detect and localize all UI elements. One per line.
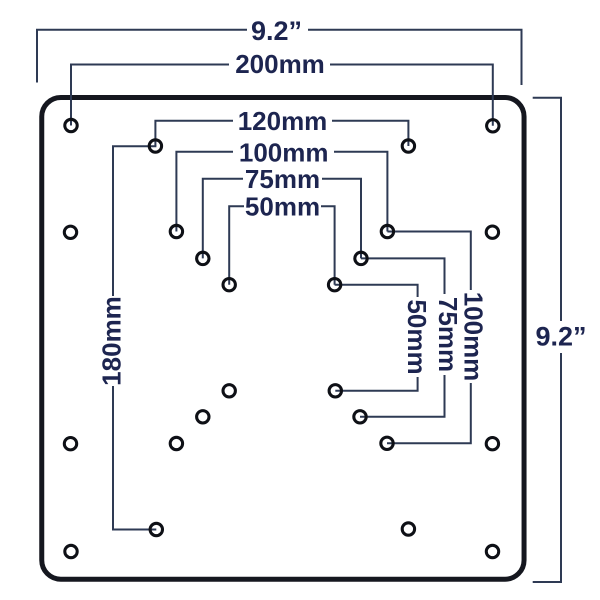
svg-text:200mm: 200mm: [235, 49, 325, 79]
dimension 180mm line bottom: [113, 386, 156, 530]
dimension 75mm right line bottom: [360, 375, 445, 417]
dimension 9.2in top line left: [37, 30, 247, 83]
hole 180mm bottom-right: [402, 523, 414, 535]
hole 50mm bottom-left: [223, 385, 235, 397]
hole 180mm bottom-left: [150, 523, 162, 535]
hole 75mm bottom-left: [197, 411, 209, 423]
dimension 100mm top line right: [334, 152, 387, 232]
svg-text:180mm: 180mm: [97, 296, 127, 386]
hole top-right outer (200mm): [487, 120, 499, 132]
svg-text:100mm: 100mm: [239, 138, 329, 168]
dimension 200mm line right: [330, 65, 493, 126]
dimension 100mm right line top: [387, 232, 470, 291]
hole 100mm bottom-left: [170, 437, 182, 449]
dimension 9.2in right line top: [533, 98, 561, 321]
dimension 50mm top line left: [229, 206, 244, 284]
svg-text:50mm: 50mm: [402, 299, 432, 374]
dimension 50mm right line top: [335, 285, 418, 297]
hole 75mm bottom-right: [354, 411, 366, 423]
hole 100mm top-right: [381, 225, 393, 237]
dimension 120mm line right: [332, 121, 408, 146]
hole 120mm left: [149, 140, 161, 152]
dimension 200mm line left: [71, 65, 229, 126]
dimension 180mm line top: [113, 146, 156, 296]
dimension 100mm top line left: [176, 152, 233, 232]
hole 120mm right: [402, 140, 414, 152]
hole 75mm top-left: [197, 252, 209, 264]
svg-text:9.2”: 9.2”: [251, 16, 302, 46]
svg-text:50mm: 50mm: [245, 192, 320, 222]
dimension 50mm top line right: [321, 206, 335, 284]
dimension 100mm right line bottom: [387, 383, 471, 443]
svg-text:75mm: 75mm: [433, 297, 463, 372]
hole bottom-right outer: [486, 545, 498, 557]
hole right column row3: [486, 438, 498, 450]
plate outline: [42, 98, 524, 580]
dimension 75mm right line top: [361, 258, 445, 294]
hole left column row3: [64, 438, 76, 450]
hole 100mm top-left: [170, 225, 182, 237]
dimension 75mm top line right: [322, 179, 361, 259]
svg-text:9.2”: 9.2”: [535, 322, 586, 352]
hole bottom-left outer: [65, 545, 77, 557]
hole 100mm bottom-right: [381, 437, 393, 449]
dimension 50mm right line bottom: [335, 377, 417, 391]
hole 50mm top-right: [328, 279, 340, 291]
dimension 120mm line left: [155, 121, 233, 146]
dimension 9.2in top line right: [308, 30, 522, 85]
hole 75mm top-right: [355, 252, 367, 264]
hole top-left outer (200mm): [65, 119, 77, 131]
hole 50mm bottom-right: [329, 385, 341, 397]
hole left column row2: [64, 226, 76, 238]
hole right column row2: [486, 226, 498, 238]
svg-text:75mm: 75mm: [245, 164, 320, 194]
hole 50mm top-left: [223, 279, 235, 291]
dimension 9.2in right line bottom: [533, 353, 561, 582]
svg-text:120mm: 120mm: [238, 106, 328, 136]
dimension 75mm top line left: [203, 179, 243, 259]
svg-text:100mm: 100mm: [458, 292, 488, 382]
